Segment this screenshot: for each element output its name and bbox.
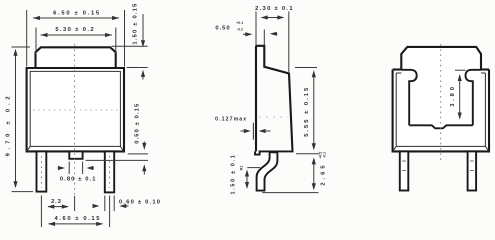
svg-text:0.50 ± 0.15: 0.50 ± 0.15 xyxy=(134,103,140,144)
svg-text:5.55 ± 0.15: 5.55 ± 0.15 xyxy=(304,86,310,137)
svg-text:-0.2: -0.2 xyxy=(237,27,243,31)
svg-text:2.30 ± 0.1: 2.30 ± 0.1 xyxy=(255,6,294,12)
svg-text:4.60 ± 0.15: 4.60 ± 0.15 xyxy=(55,216,102,222)
svg-text:5.30 ± 0.2: 5.30 ± 0.2 xyxy=(55,27,95,33)
svg-text:0.80 ± 0.1: 0.80 ± 0.1 xyxy=(60,176,97,182)
svg-text:0.60 ± 0.10: 0.60 ± 0.10 xyxy=(119,199,161,205)
svg-text:6.50 ± 0.15: 6.50 ± 0.15 xyxy=(53,10,101,16)
svg-text:-0.1: -0.1 xyxy=(322,152,326,158)
svg-text:9.70 ± 0.2: 9.70 ± 0.2 xyxy=(5,93,11,157)
svg-text:3.80: 3.80 xyxy=(450,84,456,106)
svg-text:0.50: 0.50 xyxy=(215,25,230,31)
svg-text:2.3: 2.3 xyxy=(51,199,61,205)
svg-text:+0.1: +0.1 xyxy=(236,21,243,25)
svg-text:1.50 ± 0.1: 1.50 ± 0.1 xyxy=(231,154,237,195)
svg-text:0.127max: 0.127max xyxy=(215,117,247,123)
svg-text:R1: R1 xyxy=(239,166,243,171)
svg-text:2.65: 2.65 xyxy=(321,162,327,185)
svg-text:1.50 ± 0.15: 1.50 ± 0.15 xyxy=(133,2,139,44)
